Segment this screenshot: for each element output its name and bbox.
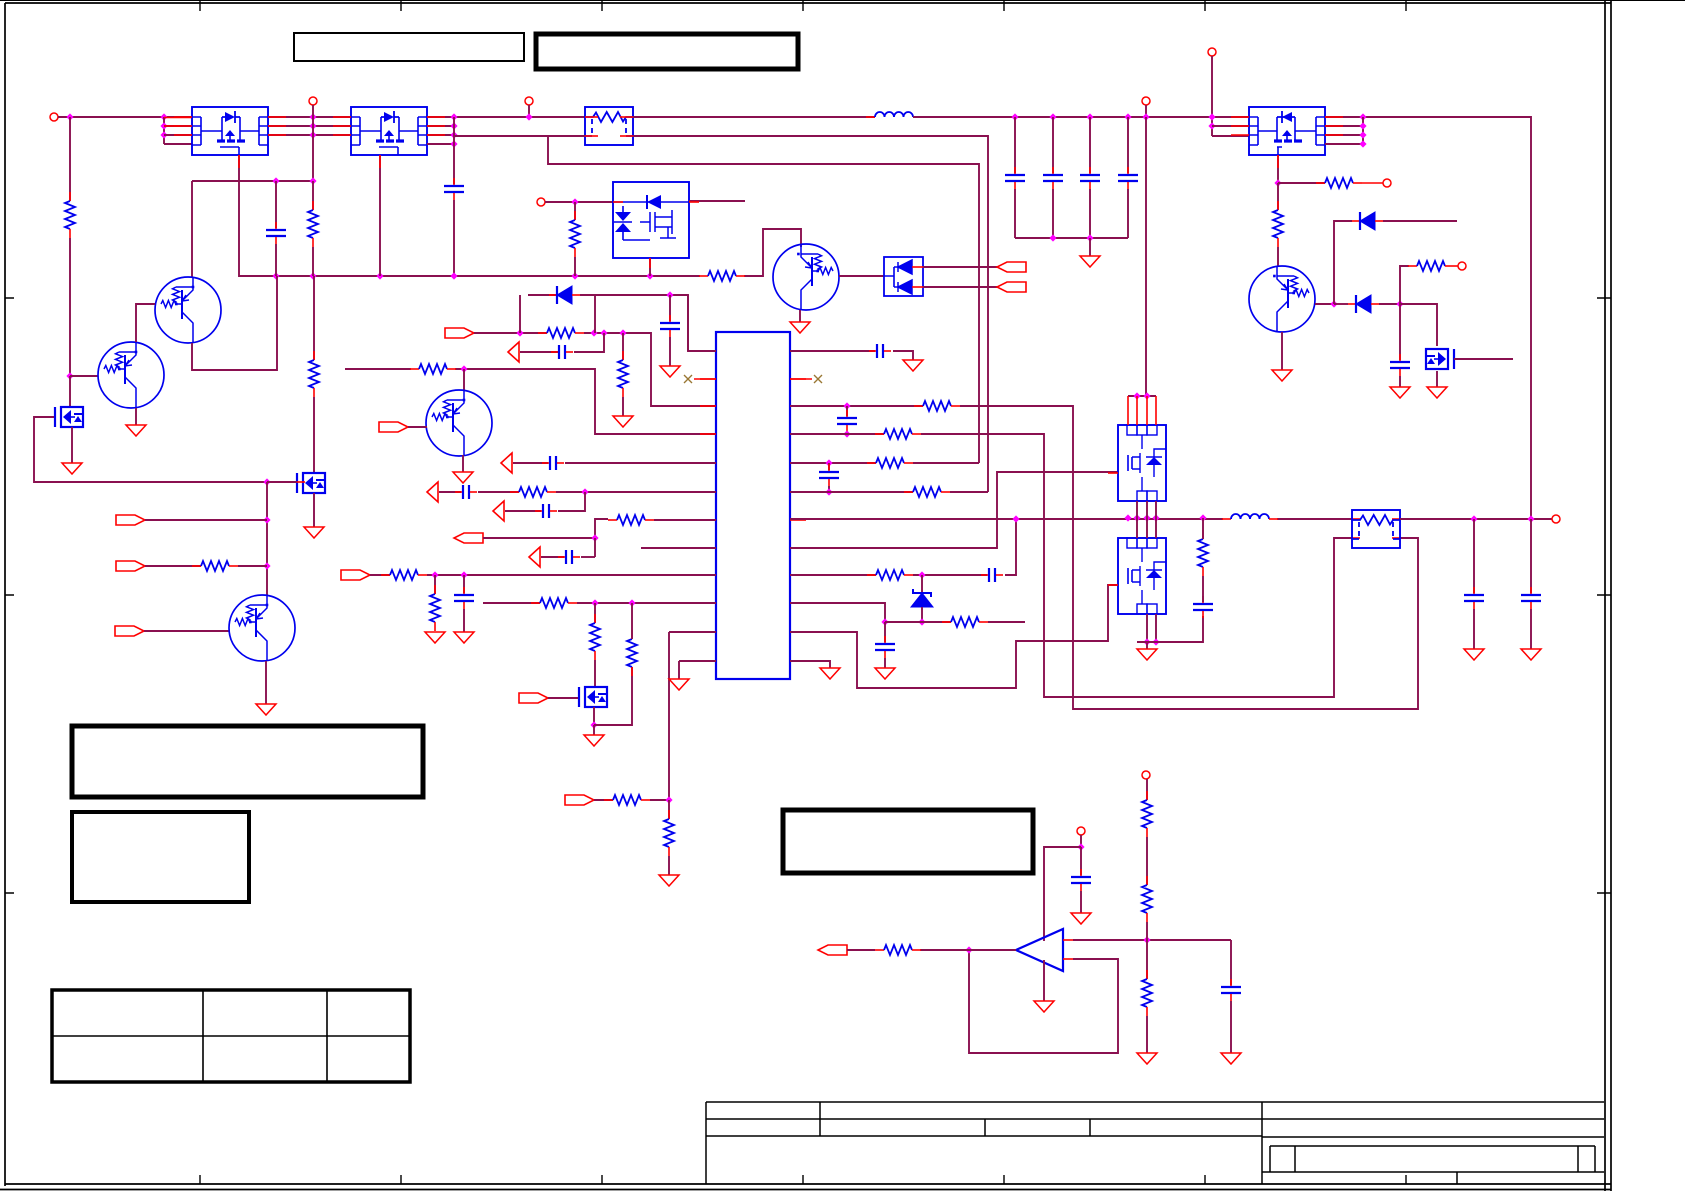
U4 internal mosfet <box>640 210 676 238</box>
annotation box left mid <box>72 726 423 797</box>
common-mode filter L1 <box>585 107 633 145</box>
wire Q9 src <box>593 707 595 725</box>
junction n36 <box>1359 113 1366 120</box>
junction n6 <box>309 122 316 129</box>
junction n27 <box>571 198 578 205</box>
junction n8 <box>450 113 457 120</box>
annotation box left lower <box>72 812 249 902</box>
wire gnd-bus277 <box>239 155 700 276</box>
wire ulo bus <box>1137 616 1203 642</box>
junction n65 <box>965 946 972 953</box>
capacitor C4 <box>275 222 277 229</box>
wire QA emit <box>192 276 277 370</box>
wire opamp gnd <box>1043 960 1045 1001</box>
wire zener stem <box>921 575 923 592</box>
junction n47 <box>628 599 635 606</box>
wire Q2 src <box>71 427 73 463</box>
transistor Q5 <box>426 390 492 456</box>
transistor Q9 <box>585 687 607 707</box>
port J5 <box>1142 97 1150 105</box>
ground G4 <box>256 704 276 715</box>
transistor Q1A <box>155 277 221 343</box>
junction n14 <box>309 272 316 279</box>
wire row800 <box>594 799 613 801</box>
wire row661R <box>790 661 830 668</box>
wire inp wire <box>1073 939 1231 941</box>
wire P2 out r4 <box>427 143 454 145</box>
wire row548R <box>790 472 1118 548</box>
junction n13 <box>272 272 279 279</box>
junction n59 <box>1143 638 1150 645</box>
junction n26 <box>460 365 467 372</box>
wire d-row-left <box>519 295 521 333</box>
wire snub top <box>1202 518 1204 539</box>
capacitor C27 <box>535 510 542 512</box>
resistor R23 <box>668 810 670 819</box>
junction cb1 <box>1049 113 1056 120</box>
wire r669b <box>668 856 670 875</box>
junction n38 <box>1359 131 1366 138</box>
wire U4 out <box>689 200 745 202</box>
wire J2 stem <box>312 105 314 181</box>
junction n64 <box>1143 936 1150 943</box>
ground G13 <box>425 632 445 643</box>
wire Q8 feed <box>1400 304 1437 346</box>
junction n49 <box>665 796 672 803</box>
resistor R25 <box>875 433 884 435</box>
port flag P-C <box>115 626 144 636</box>
wire J5 stem <box>1145 105 1147 117</box>
wire cap1 top <box>1052 117 1054 173</box>
capacitor C23 <box>1080 869 1082 876</box>
wire QB gnd <box>135 408 137 425</box>
wire row351R <box>790 350 875 352</box>
capacitor C26 <box>455 491 462 493</box>
wire out wire2 <box>847 949 875 951</box>
wire P2 out r1 <box>427 116 585 118</box>
wire fB2 <box>238 565 267 567</box>
wire row511b <box>558 492 585 511</box>
wire row136 <box>454 135 585 137</box>
wire C11 branch <box>1399 304 1401 360</box>
port J2 <box>309 97 317 105</box>
wire P1-P2 r2 <box>268 125 351 127</box>
wire P3 out1 <box>1325 117 1531 519</box>
junction cb5 <box>1049 234 1056 241</box>
transistor Q1B <box>98 342 164 408</box>
capacitor C3 <box>453 178 455 185</box>
wire fA <box>145 519 267 521</box>
junction n32 <box>666 291 673 298</box>
inductor L3 <box>1222 518 1231 520</box>
wire row406Rb <box>960 406 1418 709</box>
junction n48 <box>590 721 597 728</box>
capacitor C17 <box>828 464 830 471</box>
junction ub1156 <box>1152 514 1159 521</box>
resistor R15 <box>1408 265 1417 267</box>
port flag P-B <box>116 561 145 571</box>
transistor Q7 <box>1249 266 1315 332</box>
wire J6 stem <box>1211 56 1213 136</box>
wire row622 <box>885 621 951 623</box>
dual diode pack D2 <box>884 257 923 296</box>
ground G12 <box>1427 387 1447 398</box>
wire C4 bot <box>275 244 277 276</box>
port arrow P-P <box>427 482 438 502</box>
wire R5 top <box>312 181 314 210</box>
resistor R17 <box>381 574 390 576</box>
wire c1081b <box>1080 891 1082 913</box>
junction ub1128 <box>1124 514 1131 521</box>
resistor R12 <box>622 351 624 360</box>
mosfet package U5 <box>1249 107 1325 155</box>
junction cb0 <box>1011 113 1018 120</box>
wire row603b <box>577 602 716 604</box>
wire row557b <box>581 556 595 558</box>
ground G27 <box>1137 1053 1157 1064</box>
mosfet package U3 <box>351 107 427 155</box>
junction n24 <box>263 562 270 569</box>
capacitor C16 <box>846 410 848 417</box>
wire row492Lb <box>478 491 519 493</box>
junction n12 <box>525 113 532 120</box>
port flag P-G <box>997 262 1026 272</box>
wire c885 <box>884 622 886 642</box>
port J4 <box>537 198 545 206</box>
resistor R24 <box>914 405 923 407</box>
port J6 <box>1208 48 1216 56</box>
wire pin-col-left <box>163 117 165 144</box>
mosfet load switch U4 <box>613 182 689 258</box>
capacitor C21 <box>1473 587 1475 594</box>
junction n50 <box>843 402 850 409</box>
wire gnd-bus277b <box>744 229 801 276</box>
wire Vp col <box>69 117 71 201</box>
wire p3r2 <box>1212 125 1249 127</box>
ground G25 <box>1221 1053 1241 1064</box>
capacitor C15 <box>869 350 876 352</box>
wire under-fuse <box>548 136 979 463</box>
junction n19 <box>272 177 279 184</box>
wire ref chain <box>1146 779 1148 800</box>
no-connect NC2 <box>814 375 822 383</box>
ground G19 <box>875 668 895 679</box>
junction n11 <box>450 140 457 147</box>
junction n41 <box>1330 300 1337 307</box>
junction n43 <box>591 534 598 541</box>
wire v595 <box>594 295 596 333</box>
wire gate-col x267 <box>266 482 268 596</box>
wire cap gnd stem <box>1089 238 1091 256</box>
capacitor C6 <box>551 351 558 353</box>
wire fuse out2 <box>633 136 988 492</box>
main controller IC U1 <box>716 332 790 679</box>
wire opamp vcc <box>1044 847 1081 941</box>
port arrow P-Q <box>493 501 504 521</box>
wire P2 out r3 <box>427 134 454 136</box>
junction n54 <box>918 571 925 578</box>
transistor Q3 <box>303 473 325 493</box>
wire D2 out2 <box>923 286 997 288</box>
ground G2 <box>62 463 82 474</box>
wire cap bus <box>1015 237 1128 239</box>
transistor Q8 <box>1426 349 1448 369</box>
resistor R5 <box>312 201 314 210</box>
op-amp U8 <box>1016 929 1063 971</box>
wire row333 <box>474 332 547 334</box>
wire r435 <box>434 575 436 594</box>
wire row463R <box>790 462 876 464</box>
wire uhi bus <box>1128 395 1156 397</box>
port flag P-N <box>818 945 847 955</box>
wire r669 <box>668 800 670 819</box>
wire row575Rb <box>913 574 987 576</box>
capacitor C10 <box>1127 167 1129 174</box>
wire row352b <box>574 333 604 352</box>
junction n60 <box>1152 638 1159 645</box>
wire out wire <box>920 949 1016 951</box>
ground G20 <box>820 668 840 679</box>
wire f538 <box>483 537 595 539</box>
resistor R14 <box>1277 201 1279 210</box>
annotation box bottom middle <box>783 810 1033 873</box>
wire row603 <box>483 602 540 604</box>
wire ulo b2 <box>1155 614 1157 642</box>
wire fuse out1 <box>633 116 875 118</box>
wire P1-P2 r3 <box>268 134 351 136</box>
wire ulo gnd stem <box>1146 642 1148 649</box>
wire ref chain4 <box>1146 940 1148 979</box>
diode D1 <box>549 294 557 296</box>
wire c847b <box>846 432 848 434</box>
junction ub1137 <box>1133 514 1140 521</box>
wire Vp col2 <box>69 238 71 376</box>
capacitor C19 <box>884 636 886 643</box>
junction n4 <box>160 131 167 138</box>
capacitor C9 <box>1089 167 1091 174</box>
wire row575Rc <box>1005 519 1016 575</box>
wire fb loop <box>969 950 1118 1053</box>
wire uhi feed <box>1145 117 1147 396</box>
wire D3 branch <box>1334 221 1352 304</box>
wire QA col <box>191 181 193 277</box>
wire ref chain3 <box>1146 922 1148 940</box>
junction n23 <box>263 516 270 523</box>
junction n57 <box>1012 515 1019 522</box>
wire p3 o3 <box>1325 134 1363 136</box>
port J3 <box>525 97 533 105</box>
wire row463Rb <box>913 462 979 464</box>
wire QD gnd <box>462 455 464 472</box>
wire row520Rb <box>1277 518 1352 520</box>
ground G15 <box>584 735 604 746</box>
wire D4 out <box>1379 303 1400 305</box>
resistor R34 <box>1146 970 1148 979</box>
resistor R30 <box>1202 530 1204 539</box>
junction n30 <box>600 329 607 336</box>
wire pin351 vert <box>687 295 689 351</box>
ground G3 <box>304 527 324 538</box>
wire D4 in <box>1334 303 1348 305</box>
wire r595d <box>594 603 596 623</box>
junction n18 <box>646 272 653 279</box>
resistor R21 <box>631 630 633 639</box>
wire c829b <box>828 486 830 492</box>
ground G23 <box>1521 649 1541 660</box>
wire ulo b1 <box>1146 614 1148 642</box>
junction n29 <box>590 329 597 336</box>
wire fB <box>145 565 201 567</box>
resistor R27 <box>904 491 913 493</box>
wire row434R <box>790 433 884 435</box>
transistor Q4 <box>229 595 295 661</box>
wire ref chain2 <box>1146 837 1148 885</box>
junction cb2 <box>1086 113 1093 120</box>
wire row520Lb <box>654 519 716 521</box>
wire c1474b <box>1473 609 1475 649</box>
wire uhi b3 <box>1155 501 1157 518</box>
wire Q7 gnd <box>1281 332 1283 370</box>
resistor R31 <box>875 949 884 951</box>
ground G1 <box>126 425 146 436</box>
wire cap3 top <box>1127 117 1129 173</box>
U4 internal zener pair <box>615 212 631 232</box>
resistor R1 <box>69 192 71 201</box>
wire r623 <box>622 333 624 360</box>
wire ref chain5 <box>1146 1016 1148 1053</box>
ground G18 <box>903 360 923 371</box>
ground G14 <box>454 632 474 643</box>
ground G5 <box>453 472 473 483</box>
wire r632 top <box>631 603 633 639</box>
wire cap3 bot <box>1127 189 1129 238</box>
wire row492Rb <box>950 491 988 493</box>
wire QB-QA link <box>136 304 155 342</box>
resistor R35 <box>510 491 519 493</box>
junction n52 <box>825 459 832 466</box>
wire d-row2 <box>580 295 716 351</box>
wire cap col <box>453 117 455 184</box>
resistor R16 <box>608 519 617 521</box>
wire J3 stem <box>528 105 530 117</box>
wire uhi b1 <box>1136 501 1138 518</box>
capacitor C7 <box>1014 167 1016 174</box>
resistor R8 <box>192 565 201 567</box>
resistor R28 <box>867 574 876 576</box>
junction n2 <box>160 113 167 120</box>
wire row622b <box>988 621 1025 623</box>
port flag P-A <box>116 515 145 525</box>
wire c464b <box>463 609 465 632</box>
wire zener bot <box>921 607 923 622</box>
wire xf out <box>1400 518 1552 520</box>
no-connect NC1 <box>684 375 692 383</box>
wire snub mid <box>1202 576 1204 602</box>
port flag P-L <box>519 693 548 703</box>
wire row183 <box>1278 182 1325 184</box>
wire ulo t1 <box>1136 518 1138 538</box>
junction n58 <box>1199 514 1206 521</box>
wire pin351L cap <box>669 294 671 296</box>
resistor R22 <box>604 799 613 801</box>
wire row557 <box>541 556 564 558</box>
capacitor C13 <box>558 556 565 558</box>
wire U4 gnd stub <box>649 258 651 276</box>
wire Q8 src <box>1436 371 1438 387</box>
wire fD <box>408 426 427 428</box>
wire Q2 gate <box>34 417 267 482</box>
wire row492Lc <box>556 491 716 493</box>
title block <box>706 1102 1604 1184</box>
wire row434Rb <box>921 434 1352 697</box>
junction n35 <box>1208 122 1215 129</box>
junction n56 <box>918 618 925 625</box>
wire pin351 chain <box>688 350 716 352</box>
wire row333b <box>584 333 716 406</box>
resistor R13 <box>1316 182 1325 184</box>
ground G6 <box>660 366 680 377</box>
capacitor C25 <box>542 462 549 464</box>
wire Q3 gate <box>267 481 297 483</box>
ground G11 <box>1390 387 1410 398</box>
wire row661Lv <box>678 661 680 679</box>
port arrow P-F <box>508 342 519 362</box>
port flag P-I <box>454 533 483 543</box>
wire C4 top <box>275 181 277 228</box>
port flag P-K <box>341 570 370 580</box>
wire row632R <box>790 585 1118 688</box>
wire p3r3 <box>1212 135 1249 137</box>
wire row352 <box>520 351 558 353</box>
revision table bottom left <box>52 990 410 1082</box>
resistor R10 <box>574 211 576 220</box>
junction n61 <box>1470 515 1477 522</box>
wire row800b <box>650 799 669 801</box>
wire r623b <box>622 397 624 416</box>
junction n42 <box>1396 300 1403 307</box>
mosfet half-bridge package U6 <box>1118 425 1166 501</box>
wire row520L <box>595 519 608 538</box>
mosfet package U2 <box>192 107 268 155</box>
U4 internal diode <box>647 195 661 209</box>
wire row351Rb <box>893 351 913 360</box>
wire fC <box>144 630 229 632</box>
junction n10 <box>450 131 457 138</box>
capacitor C5 <box>669 315 671 322</box>
wire R14 bot <box>1277 247 1279 267</box>
wire f538 down <box>594 538 596 557</box>
resistor R32 <box>1146 791 1148 800</box>
wire D2 out1 <box>923 266 997 268</box>
wire VIN-rail <box>58 116 192 118</box>
port flag P-E <box>445 328 474 338</box>
wire QD col <box>463 369 465 391</box>
resistor R18 <box>434 585 436 594</box>
wire row576 <box>370 574 390 576</box>
resistor R20 <box>594 614 596 623</box>
resistor R29 <box>942 621 951 623</box>
resistor R33 <box>1146 876 1148 885</box>
wire v669 <box>668 632 670 800</box>
port J8 <box>1458 262 1466 270</box>
wire R7 top <box>313 276 315 360</box>
wire R15 branch <box>1400 266 1409 304</box>
wire c885b <box>884 658 886 668</box>
common-mode filter T1 <box>1352 510 1400 548</box>
mosfet half-bridge package U7 <box>1118 538 1166 614</box>
wire row548 stub <box>641 547 716 549</box>
wire c-670b <box>669 337 671 366</box>
